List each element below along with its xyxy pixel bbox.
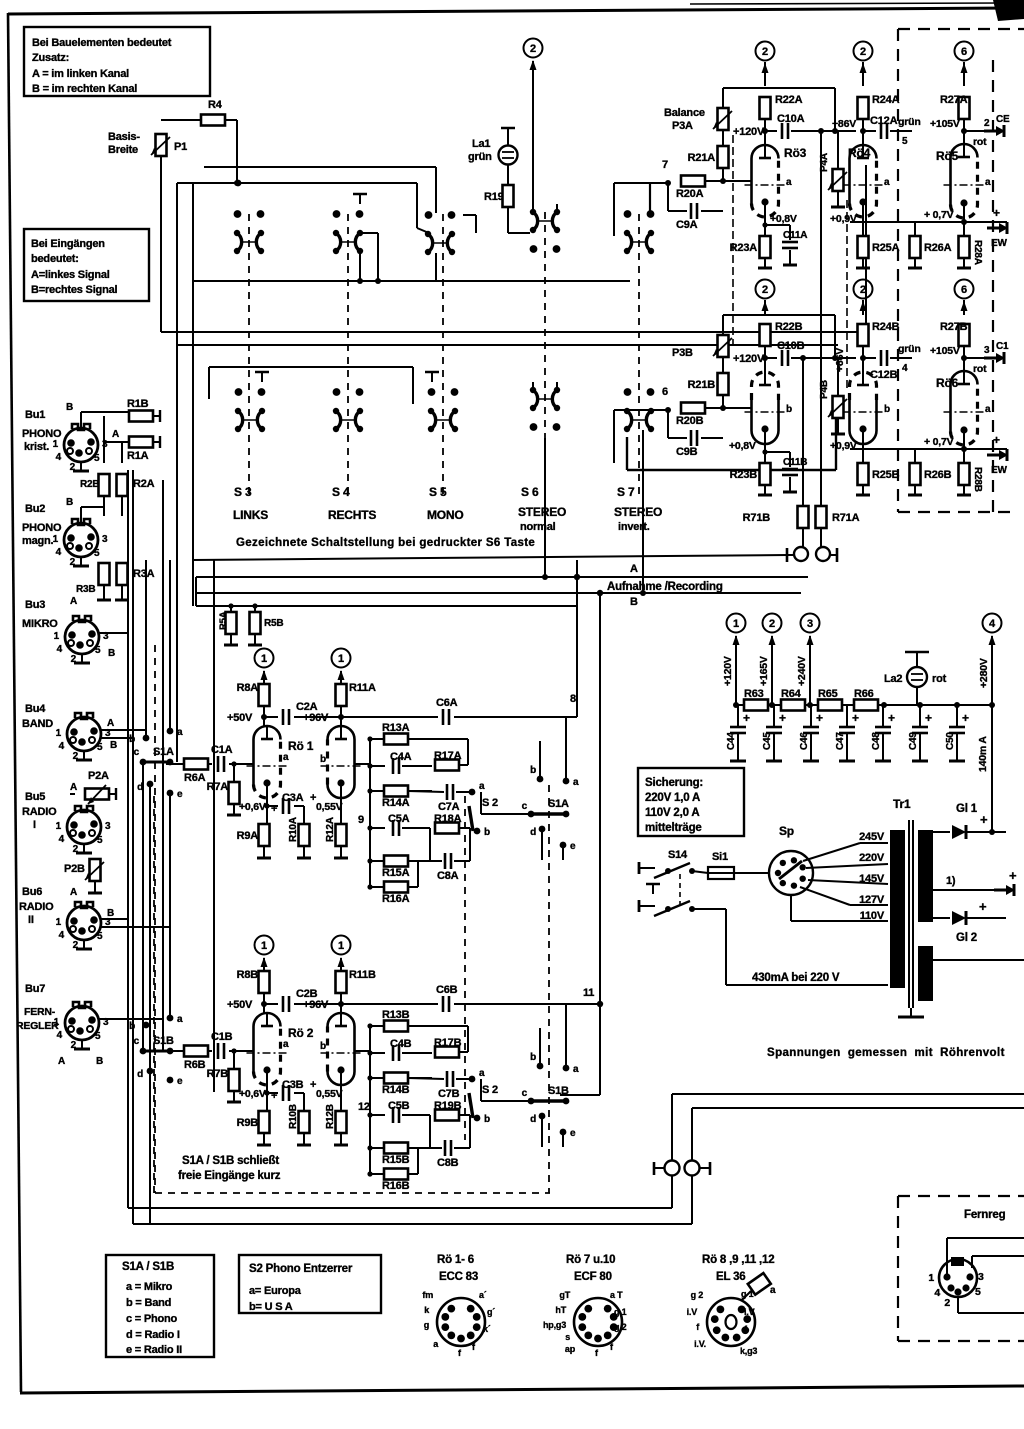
page frame top border: [8, 8, 1013, 14]
svg-text:1: 1: [56, 821, 62, 832]
selector pole S1B output: [537, 1063, 544, 1070]
svg-text:+: +: [816, 711, 823, 725]
svg-text:hp,g3: hp,g3: [543, 1320, 566, 1330]
svg-text:2: 2: [70, 557, 76, 568]
secondary lower wires: [933, 959, 1024, 961]
svg-text:P1: P1: [174, 141, 187, 153]
svg-text:A: A: [630, 563, 638, 575]
grid wire A right triode: [355, 763, 370, 765]
switch S4 lower bank: [333, 388, 341, 396]
triode R&#246;5/B (R&#246;6): [951, 371, 978, 432]
triode R&#246;4/A: [850, 145, 877, 204]
svg-text:R24A: R24A: [872, 94, 900, 106]
potentiometer P1 Basis-Breite: [156, 134, 167, 156]
svg-text:2: 2: [70, 462, 76, 473]
svg-text:110V 2,0 A: 110V 2,0 A: [645, 807, 699, 819]
svg-text:4: 4: [59, 741, 65, 752]
svg-text:R3A: R3A: [133, 568, 155, 580]
svg-text:Bu1: Bu1: [25, 409, 45, 421]
svg-text:R65: R65: [818, 688, 838, 700]
capacitor C8A: [408, 860, 442, 862]
svg-text:i.V.: i.V.: [694, 1339, 706, 1349]
svg-text:Bu4: Bu4: [25, 703, 46, 715]
capacitor C2A: [264, 716, 278, 718]
switch S3 dashed linkage: [248, 214, 250, 497]
cathode R23B: [764, 444, 766, 463]
capacitor C10A: [765, 130, 777, 132]
svg-text:2: 2: [762, 46, 768, 58]
potentiometer P3A balance: [718, 108, 729, 130]
svg-text:LINKS: LINKS: [233, 508, 268, 522]
resistor R9B: [259, 1111, 270, 1133]
svg-text:1): 1): [946, 875, 956, 887]
svg-text:b: b: [530, 1052, 536, 1063]
svg-text:bedeutet:: bedeutet:: [31, 253, 79, 265]
svg-text:+120V: +120V: [733, 126, 765, 138]
capacitor C46: [810, 705, 812, 726]
capacitor C47: [846, 705, 848, 726]
svg-text:C10A: C10A: [777, 113, 805, 125]
svg-text:C6B: C6B: [436, 984, 458, 996]
svg-text:e: e: [570, 841, 576, 852]
svg-text:+96V: +96V: [303, 712, 329, 724]
svg-text:Breite: Breite: [108, 144, 138, 156]
svg-text:R8A: R8A: [237, 682, 259, 694]
wire S7 down to B line: [642, 430, 644, 593]
EL36 anode cap tag: [748, 1273, 771, 1295]
switch S6 lower bank inverted: [530, 423, 538, 431]
switch S4 upper bank: [333, 210, 341, 218]
svg-text:S 3: S 3: [234, 485, 252, 499]
resistor R6B: [166, 1050, 184, 1052]
svg-text:b: b: [129, 734, 135, 745]
svg-text:a= Europa: a= Europa: [249, 1285, 302, 1297]
switch S7 upper bank: [624, 210, 632, 218]
svg-text:Rö5: Rö5: [936, 149, 959, 163]
svg-text:5: 5: [94, 453, 100, 464]
svg-text:s: s: [565, 1332, 570, 1342]
svg-text:1: 1: [261, 653, 267, 665]
svg-text:RADIO: RADIO: [19, 901, 54, 913]
svg-text:a: a: [177, 1014, 183, 1025]
svg-text:+: +: [271, 803, 277, 815]
capacitor C45: [773, 705, 775, 726]
supply circled 6 for R27A: [955, 42, 974, 61]
svg-text:Bu7: Bu7: [25, 983, 45, 995]
dashed S1 right linkage: [548, 785, 550, 1193]
svg-text:R15A: R15A: [382, 867, 410, 879]
resistor R9A: [259, 824, 270, 846]
svg-text:I: I: [33, 819, 36, 831]
supply rail circled 3: [801, 614, 820, 633]
svg-text:1: 1: [56, 728, 62, 739]
svg-text:b: b: [320, 1041, 326, 1052]
svg-text:g 2: g 2: [614, 1322, 627, 1332]
svg-text:C48: C48: [871, 732, 882, 750]
wire e down: [169, 793, 171, 1018]
switch bus wire y281: [193, 280, 630, 282]
svg-text:+: +: [962, 711, 969, 725]
svg-text:0,55V: 0,55V: [316, 1088, 343, 1100]
svg-text:S14: S14: [668, 849, 688, 861]
svg-text:g 1: g 1: [614, 1307, 627, 1317]
resistor R5B: [254, 606, 256, 612]
wire S5 right link: [463, 214, 476, 216]
svg-text:A: A: [107, 718, 114, 729]
svg-text:invert.: invert.: [618, 521, 650, 533]
svg-text:rot: rot: [973, 363, 987, 375]
svg-text:S 2: S 2: [482, 797, 498, 809]
svg-text:3: 3: [807, 618, 813, 630]
pinout EL36 socket: [707, 1298, 755, 1346]
svg-text:C9B: C9B: [676, 446, 698, 458]
pinout ECF80 socket: [574, 1298, 622, 1346]
svg-text:8: 8: [570, 693, 576, 705]
resistor R65: [818, 700, 842, 711]
wire S5 to bus: [435, 253, 437, 281]
wire Bu7 out: [99, 1018, 163, 1020]
svg-text:a: a: [985, 177, 991, 188]
svg-text:R2B: R2B: [80, 479, 99, 490]
wire S1A contacts: [539, 741, 541, 779]
svg-text:A: A: [70, 782, 77, 793]
svg-text:Gl 2: Gl 2: [956, 932, 977, 944]
svg-text:a T: a T: [610, 1290, 623, 1300]
svg-text:A: A: [58, 1056, 65, 1067]
resistor R71B: [802, 528, 804, 547]
svg-text:Gl 1: Gl 1: [956, 803, 978, 815]
svg-text:b: b: [530, 765, 536, 776]
resistor R7B: [233, 1051, 235, 1068]
svg-text:C7B: C7B: [438, 1088, 460, 1100]
svg-text:Bu3: Bu3: [25, 599, 45, 611]
socket Fernregler DIN: [939, 1259, 977, 1297]
resistor R19: [507, 165, 509, 184]
recording jack circle B: [816, 547, 830, 561]
wire R4 left to P1: [161, 119, 201, 121]
svg-text:C9A: C9A: [676, 219, 698, 231]
svg-text:S 4: S 4: [332, 485, 350, 499]
svg-text:Rö 1: Rö 1: [288, 739, 314, 753]
svg-text:S 7: S 7: [617, 485, 635, 499]
svg-text:grün: grün: [898, 343, 921, 355]
svg-text:mittelträge: mittelträge: [645, 822, 702, 834]
svg-text:Rö 7 u.10: Rö 7 u.10: [566, 1254, 615, 1266]
wire +50V node A: [263, 706, 265, 726]
switch S6 dashed linkage: [544, 212, 546, 497]
svg-text:b: b: [786, 404, 792, 415]
svg-text:gT: gT: [559, 1290, 570, 1300]
pinout ECC83 socket: [437, 1298, 485, 1346]
svg-text:MIKRO: MIKRO: [22, 618, 58, 630]
svg-text:a: a: [479, 781, 485, 792]
capacitor C48: [882, 705, 884, 726]
wire +96V node B: [328, 1003, 341, 1005]
svg-text:c: c: [134, 1036, 140, 1047]
wire bus bottom y1224: [133, 1223, 692, 1225]
svg-text:c: c: [522, 801, 528, 812]
svg-text:2: 2: [762, 284, 768, 296]
svg-text:R19: R19: [484, 191, 504, 203]
svg-text:ap: ap: [565, 1344, 576, 1354]
svg-text:magn.: magn.: [22, 535, 54, 547]
supply arrow circled 1 (B left): [255, 936, 274, 955]
svg-text:5: 5: [975, 1286, 981, 1298]
svg-text:g: g: [424, 1320, 429, 1330]
switch S2 contact b B: [474, 1115, 481, 1122]
svg-text:d = Radio I: d = Radio I: [126, 1329, 180, 1341]
resistor R27B: [959, 324, 970, 346]
svg-text:R21A: R21A: [688, 152, 716, 164]
legend box S1A/S1B: [106, 1255, 214, 1357]
svg-text:3: 3: [984, 345, 990, 356]
resistor R8A: [263, 673, 265, 684]
svg-text:krist.: krist.: [24, 441, 49, 453]
svg-text:2: 2: [530, 43, 536, 55]
svg-text:PHONO: PHONO: [22, 522, 62, 534]
svg-text:3: 3: [105, 821, 111, 832]
supply rail circled 1: [727, 614, 746, 633]
svg-text:+: +: [980, 812, 988, 827]
svg-text:normal: normal: [520, 521, 556, 533]
switch S4 ground T-bar: [353, 193, 367, 196]
svg-text:2: 2: [71, 1040, 77, 1051]
resistor R3B: [99, 563, 110, 585]
supply circled 2 for R24B: [854, 280, 873, 299]
svg-text:A=linkes Signal: A=linkes Signal: [31, 269, 110, 281]
svg-text:R17B: R17B: [434, 1037, 462, 1049]
resistor R17B: [435, 1047, 459, 1058]
svg-text:B: B: [110, 740, 117, 751]
svg-text:R8B: R8B: [237, 969, 259, 981]
svg-text:B: B: [66, 497, 73, 508]
grid wire B right triode: [355, 1050, 370, 1052]
long wire y1094: [672, 1093, 1024, 1095]
feedback network R13B: [370, 1025, 384, 1027]
svg-text:b= U S A: b= U S A: [249, 1301, 293, 1313]
svg-text:R1A: R1A: [127, 450, 149, 462]
svg-text:S1A / S1B: S1A / S1B: [122, 1261, 174, 1273]
resistor R8B: [263, 960, 265, 971]
svg-text:1: 1: [928, 1272, 934, 1284]
svg-text:R23A: R23A: [730, 242, 758, 254]
svg-text:R22B: R22B: [775, 321, 803, 333]
resistor R14B: [370, 1077, 384, 1079]
svg-text:R7B: R7B: [207, 1068, 229, 1080]
resistor R21A: [718, 146, 729, 168]
svg-text:R66: R66: [854, 688, 874, 700]
recording jack left bar: [786, 548, 789, 562]
wire S5 feed bends: [416, 183, 418, 228]
wire P3B top loop: [722, 315, 724, 335]
svg-text:C12A: C12A: [870, 115, 898, 127]
resistor R7A: [233, 764, 235, 781]
svg-text:b = Band: b = Band: [126, 1297, 171, 1309]
selector tap wires: [803, 843, 860, 861]
svg-text:5: 5: [97, 742, 103, 753]
svg-text:11: 11: [583, 987, 594, 999]
wire vertical x866: [865, 165, 867, 332]
resistor R12A: [340, 798, 342, 824]
svg-text:C44: C44: [726, 732, 737, 750]
svg-text:Rö3: Rö3: [784, 146, 807, 160]
resistor R27A: [959, 97, 970, 119]
switch S2 blade A: [469, 806, 473, 831]
svg-text:+: +: [1009, 868, 1017, 883]
svg-text:1: 1: [338, 653, 344, 665]
resistor R15A: [370, 860, 384, 862]
capacitor C1B: [206, 1050, 212, 1052]
svg-text:+: +: [779, 711, 786, 725]
svg-text:1: 1: [54, 631, 60, 642]
switch S1A input pole: [145, 560, 147, 738]
svg-text:S 2: S 2: [482, 1084, 498, 1096]
svg-text:4: 4: [56, 452, 62, 463]
svg-text:R22A: R22A: [775, 94, 803, 106]
wire Bu2 row: [80, 507, 82, 523]
svg-text:R27A: R27A: [940, 94, 968, 106]
supply arrow circled 2 top: [524, 39, 543, 58]
capacitor C12A: [863, 130, 876, 132]
capacitor C10B: [765, 357, 777, 359]
svg-text:R11A: R11A: [349, 682, 376, 694]
svg-text:127V: 127V: [859, 894, 885, 906]
wire bus x163: [162, 480, 164, 1051]
supply arrow circled 1 (A left): [255, 649, 274, 668]
resistor R11B: [340, 960, 342, 971]
svg-text:R14B: R14B: [382, 1084, 410, 1096]
capacitor C4A: [370, 765, 385, 767]
capacitor C2B: [264, 1003, 278, 1005]
svg-text:R23B: R23B: [730, 469, 758, 481]
svg-text:245V: 245V: [859, 831, 885, 843]
dashed output box left: [897, 29, 899, 512]
svg-text:b: b: [484, 1114, 490, 1125]
triode R&#246;3/B: [752, 400, 779, 444]
svg-text:R26A: R26A: [924, 242, 952, 254]
supply circled 6 for R27B: [955, 280, 974, 299]
note box: Bei Bauelementen: [24, 27, 210, 96]
wire long horizontal y332: [161, 331, 866, 333]
wire +50V node B: [263, 993, 265, 1013]
lamp La2 rot: [905, 651, 929, 654]
switch S6 upper bank inverted: [530, 245, 538, 253]
resistor R21B: [718, 373, 729, 395]
svg-text:R21B: R21B: [688, 379, 716, 391]
page frame bottom border: [20, 1386, 1024, 1393]
wire Bu6 out: [101, 918, 128, 920]
wire circled2 feed down x533: [532, 62, 534, 212]
svg-text:4: 4: [934, 1287, 940, 1299]
svg-text:R17A: R17A: [434, 750, 462, 762]
svg-text:Fernreg: Fernreg: [964, 1209, 1006, 1221]
supply circled 2 for R22B: [756, 280, 775, 299]
ganged pot linkage P3A-P3B: [732, 135, 734, 345]
svg-text:Bu5: Bu5: [25, 791, 45, 803]
svg-text:Rö 1- 6: Rö 1- 6: [437, 1254, 474, 1266]
resistor R26B: [910, 463, 921, 485]
wire bus x177: [176, 183, 178, 762]
svg-text:C3A: C3A: [282, 792, 304, 804]
svg-text:MONO: MONO: [427, 508, 464, 522]
svg-text:C6A: C6A: [436, 697, 458, 709]
svg-text:P4B: P4B: [819, 380, 830, 399]
svg-text:a: a: [770, 1285, 776, 1296]
svg-text:6: 6: [961, 46, 967, 58]
svg-text:Sp: Sp: [779, 824, 794, 838]
resistor R17A: [435, 760, 459, 771]
switch lower row box edge: [209, 366, 413, 368]
svg-text:P3B: P3B: [672, 347, 693, 359]
svg-text:3: 3: [102, 534, 108, 545]
svg-text:R9A: R9A: [237, 830, 259, 842]
page frame left border: [8, 13, 21, 1392]
resistor R20A: [681, 176, 705, 187]
svg-text:B: B: [630, 596, 638, 608]
svg-text:g´: g´: [487, 1307, 495, 1317]
svg-text:Rö 8 ,9 ,11 ,12: Rö 8 ,9 ,11 ,12: [702, 1254, 774, 1266]
svg-text:6: 6: [662, 386, 668, 398]
resistor R12B: [340, 1085, 342, 1111]
svg-text:Spannungen gemessen mit Röh: Spannungen gemessen mit Röhrenvolt: [767, 1047, 1005, 1059]
svg-text:R15B: R15B: [382, 1154, 410, 1166]
recording jack right bar: [836, 548, 839, 562]
svg-text:R9B: R9B: [237, 1117, 259, 1129]
svg-text:R16B: R16B: [382, 1180, 410, 1192]
svg-text:R20A: R20A: [676, 188, 704, 200]
wire Bu4 out: [101, 729, 146, 731]
resistor R5A: [230, 606, 232, 612]
supply arrow circled 1 (B right): [332, 936, 351, 955]
svg-text:a: a: [479, 1068, 485, 1079]
svg-text:+: +: [888, 711, 895, 725]
resistor R15B: [370, 1147, 384, 1149]
svg-text:II: II: [28, 914, 34, 926]
svg-text:freie Eingänge kurz: freie Eingänge kurz: [178, 1170, 281, 1182]
svg-text:+50V: +50V: [227, 999, 253, 1011]
wire R4 right down to bus: [225, 119, 237, 121]
svg-text:La2: La2: [884, 673, 902, 685]
svg-text:b: b: [484, 827, 490, 838]
note box: Bei Eingaengen: [24, 229, 149, 301]
resistor R11A: [340, 673, 342, 684]
svg-text:2: 2: [73, 844, 79, 855]
svg-text:7: 7: [662, 159, 668, 171]
svg-text:c = Phono: c = Phono: [126, 1313, 178, 1325]
capacitor C5A: [370, 827, 385, 829]
svg-text:b: b: [884, 404, 890, 415]
capacitor C7A: [408, 791, 444, 792]
svg-text:R6B: R6B: [184, 1059, 206, 1071]
svg-text:R26B: R26B: [924, 469, 952, 481]
svg-text:1: 1: [733, 618, 739, 630]
fuse box Sicherung: [638, 768, 744, 836]
svg-text:P2A: P2A: [88, 770, 109, 782]
dashed output box top: [898, 28, 1024, 30]
resistor R18B: [435, 1110, 459, 1121]
legend box S2 Phono Entzerrer: [239, 1255, 381, 1313]
wire P1 down long vertical: [160, 156, 162, 332]
jack pair bars: [653, 1162, 656, 1175]
svg-text:4: 4: [59, 834, 65, 845]
recording jack circle A: [794, 547, 808, 561]
wire Bu3 out: [99, 632, 128, 634]
svg-text:C8A: C8A: [437, 870, 459, 882]
svg-text:+165V: +165V: [758, 656, 770, 686]
wire S6 down to A line: [544, 438, 546, 577]
svg-text:a: a: [573, 1064, 579, 1075]
svg-text:+120V: +120V: [733, 353, 765, 365]
